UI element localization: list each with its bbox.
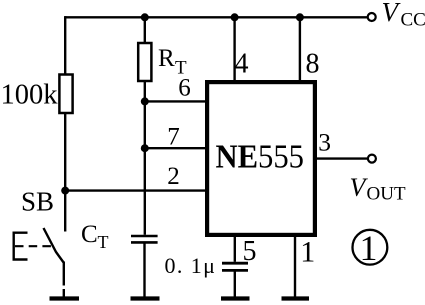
node junction pin8 bbox=[296, 13, 304, 21]
switch SB blade bbox=[44, 228, 64, 263]
wire switch bottom lead bbox=[63, 262, 65, 298]
pin 6 label bbox=[178, 74, 191, 101]
net label VOUT bbox=[350, 173, 406, 205]
wire pin 6 horizontal bbox=[145, 100, 207, 102]
value label 0.1u bbox=[165, 253, 217, 278]
switch SB actuator dashed link bbox=[15, 245, 52, 247]
svg-text:0. 1μ: 0. 1μ bbox=[165, 253, 217, 278]
figure number 1 bbox=[360, 228, 378, 268]
node junction pin7 bbox=[141, 144, 149, 152]
svg-text:2: 2 bbox=[167, 163, 180, 190]
wire pin 4 drop bbox=[233, 16, 235, 81]
wire pin 7 horizontal bbox=[145, 147, 207, 149]
resistor 100k bbox=[59, 75, 72, 114]
svg-text:R: R bbox=[158, 45, 175, 72]
value label RT bbox=[158, 45, 187, 79]
pin 4 label bbox=[235, 49, 249, 80]
value label 100k bbox=[1, 80, 59, 111]
svg-text:CC: CC bbox=[401, 10, 425, 31]
wire VCC top rail bbox=[65, 16, 367, 18]
pin 7 label bbox=[167, 124, 180, 151]
node junction pin6 bbox=[141, 97, 149, 105]
ground (switch) bbox=[50, 296, 80, 300]
wire 0.1u bottom lead bbox=[234, 270, 236, 297]
svg-text:3: 3 bbox=[318, 128, 331, 157]
capacitor 0.1u bbox=[222, 263, 248, 270]
ground (pin 1) bbox=[282, 296, 310, 300]
terminal VCC bbox=[368, 13, 376, 21]
wire left branch from rail to 100k bbox=[64, 16, 66, 74]
wire pin 1 drop bbox=[294, 235, 296, 298]
svg-text:C: C bbox=[81, 221, 98, 248]
pin 5 label bbox=[243, 236, 257, 267]
wire 100k to pin2 node bbox=[64, 113, 66, 191]
wire pin 8 drop bbox=[299, 16, 301, 81]
pin 8 label bbox=[306, 49, 320, 80]
svg-text:6: 6 bbox=[178, 74, 191, 101]
capacitor CT bbox=[131, 236, 158, 242]
svg-text:5: 5 bbox=[243, 236, 257, 267]
svg-text:4: 4 bbox=[235, 49, 249, 80]
switch SB actuator bracket bbox=[14, 233, 28, 260]
svg-text:OUT: OUT bbox=[367, 184, 406, 205]
wire pin 2 horizontal bbox=[64, 189, 207, 191]
ground (0.1u) bbox=[221, 296, 250, 300]
svg-text:T: T bbox=[98, 232, 109, 252]
wire switch top lead bbox=[64, 191, 66, 232]
svg-text:8: 8 bbox=[306, 49, 320, 80]
wire rail to RT bbox=[144, 16, 146, 43]
pin 1 label bbox=[300, 236, 315, 269]
svg-text:NE555: NE555 bbox=[216, 139, 305, 176]
svg-text:1: 1 bbox=[360, 228, 378, 268]
pin 3 label bbox=[318, 128, 331, 157]
wire pin6 node down to CT bbox=[144, 101, 146, 234]
wire CT bottom lead bbox=[143, 242, 145, 297]
terminal VOUT bbox=[368, 155, 376, 163]
svg-text:1: 1 bbox=[300, 236, 315, 269]
svg-text:SB: SB bbox=[21, 187, 54, 217]
node junction rail/RT bbox=[141, 13, 149, 21]
svg-text:7: 7 bbox=[167, 124, 180, 151]
wire pin 3 output bbox=[317, 157, 368, 159]
value label CT bbox=[81, 221, 109, 252]
wire RT to pin6 node bbox=[144, 81, 146, 101]
op-amp U1 NE555 body bbox=[207, 82, 315, 235]
node junction pin2/switch bbox=[61, 187, 69, 195]
svg-text:100k: 100k bbox=[1, 80, 59, 111]
figure number circle bbox=[353, 230, 388, 265]
pin 2 label bbox=[167, 163, 180, 190]
node junction pin4 bbox=[231, 13, 239, 21]
net label VCC bbox=[382, 0, 425, 31]
IC name NE555 bbox=[216, 139, 305, 176]
ground (CT) bbox=[131, 296, 160, 300]
resistor RT bbox=[138, 43, 151, 81]
switch label SB bbox=[21, 187, 54, 217]
wire pin 5 drop bbox=[234, 235, 236, 262]
